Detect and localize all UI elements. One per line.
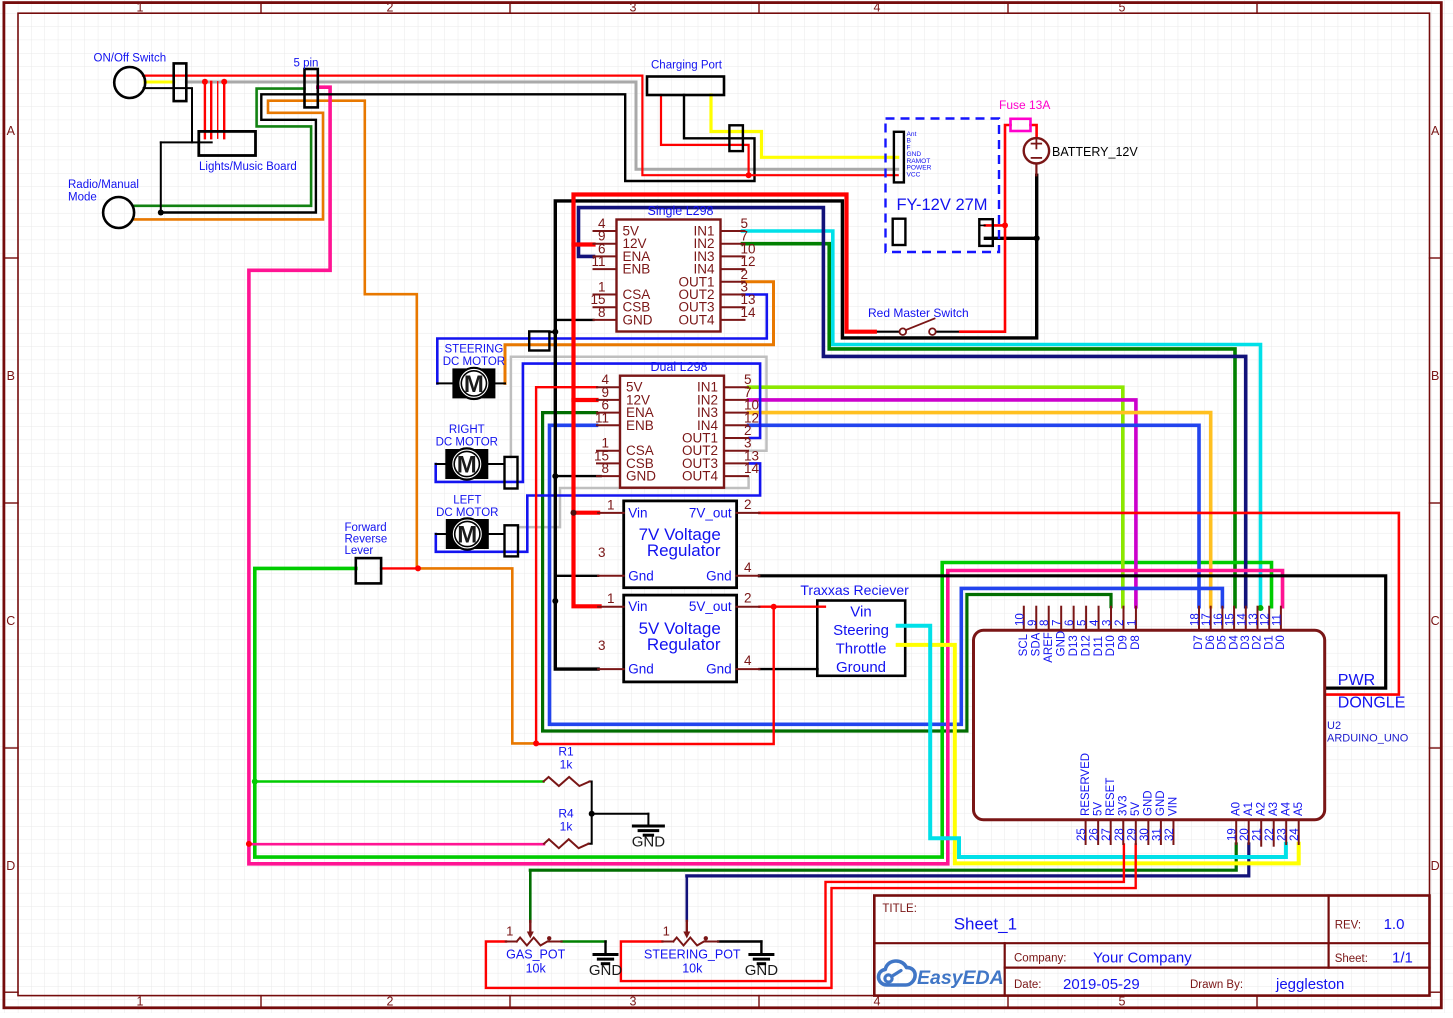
svg-text:11: 11 <box>591 254 605 269</box>
svg-text:Gnd: Gnd <box>706 662 732 677</box>
svg-text:9: 9 <box>1027 620 1039 626</box>
svg-text:22: 22 <box>1264 828 1276 841</box>
svg-text:LEFT: LEFT <box>453 495 481 507</box>
svg-text:D10: D10 <box>1105 635 1117 656</box>
svg-text:REV:: REV: <box>1335 920 1361 932</box>
svg-text:15: 15 <box>1225 613 1237 626</box>
svg-text:5V: 5V <box>1130 802 1142 816</box>
svg-text:21: 21 <box>1252 828 1264 841</box>
svg-text:11: 11 <box>595 410 609 425</box>
svg-text:31: 31 <box>1151 828 1163 841</box>
svg-text:Date:: Date: <box>1014 979 1042 991</box>
svg-text:28: 28 <box>1114 828 1126 841</box>
svg-text:Traxxas Reciever: Traxxas Reciever <box>800 582 909 598</box>
svg-text:U2: U2 <box>1327 720 1341 732</box>
svg-text:Gnd: Gnd <box>706 568 732 583</box>
svg-text:20: 20 <box>1239 828 1251 841</box>
svg-text:3: 3 <box>630 994 637 1008</box>
svg-text:Sheet_1: Sheet_1 <box>954 915 1017 934</box>
svg-text:Forward: Forward <box>345 522 387 534</box>
svg-text:Single L298: Single L298 <box>647 204 713 218</box>
svg-text:3: 3 <box>1102 620 1114 626</box>
svg-text:5: 5 <box>1119 0 1126 14</box>
svg-text:2019-05-29: 2019-05-29 <box>1063 976 1140 993</box>
svg-text:D: D <box>1431 859 1440 873</box>
svg-text:B: B <box>7 369 15 383</box>
svg-text:Mode: Mode <box>68 192 97 204</box>
svg-text:GND: GND <box>589 962 623 979</box>
svg-text:14: 14 <box>741 305 757 320</box>
svg-text:4: 4 <box>744 560 752 575</box>
svg-text:EasyEDA: EasyEDA <box>917 967 1004 989</box>
svg-text:D8: D8 <box>1130 635 1142 650</box>
svg-text:VIN: VIN <box>1168 797 1180 816</box>
svg-text:4: 4 <box>874 0 881 14</box>
svg-text:Dual L298: Dual L298 <box>651 360 708 374</box>
svg-text:Your Company: Your Company <box>1093 950 1192 967</box>
svg-text:B: B <box>1431 369 1439 383</box>
svg-text:10k: 10k <box>682 962 703 976</box>
svg-text:TITLE:: TITLE: <box>882 903 917 915</box>
svg-text:SCL: SCL <box>1018 633 1030 656</box>
svg-text:Company:: Company: <box>1014 953 1066 965</box>
svg-text:A: A <box>1431 124 1440 138</box>
svg-text:2: 2 <box>1114 620 1126 626</box>
svg-text:M: M <box>457 452 477 479</box>
svg-text:1: 1 <box>607 497 615 512</box>
svg-text:R1: R1 <box>558 745 574 759</box>
svg-text:D11: D11 <box>1093 636 1105 656</box>
svg-text:18: 18 <box>1190 613 1202 626</box>
svg-text:GND: GND <box>1155 790 1167 816</box>
svg-text:D12: D12 <box>1080 635 1092 656</box>
svg-text:RESERVED: RESERVED <box>1080 753 1092 816</box>
svg-text:D4: D4 <box>1228 635 1240 650</box>
svg-text:Throttle: Throttle <box>836 641 887 658</box>
svg-text:Reverse: Reverse <box>345 534 388 546</box>
svg-text:3: 3 <box>598 638 606 653</box>
svg-text:jeggleston: jeggleston <box>1275 976 1344 993</box>
svg-text:2: 2 <box>744 591 752 606</box>
svg-text:DC MOTOR: DC MOTOR <box>436 507 498 519</box>
svg-text:8: 8 <box>598 305 606 320</box>
svg-text:A: A <box>7 124 16 138</box>
svg-text:1k: 1k <box>560 820 574 834</box>
svg-text:A5: A5 <box>1293 802 1305 816</box>
svg-text:OUT4: OUT4 <box>682 469 718 484</box>
svg-text:RIGHT: RIGHT <box>449 424 485 436</box>
svg-text:1: 1 <box>506 924 513 939</box>
svg-text:OUT4: OUT4 <box>678 312 714 327</box>
svg-text:1: 1 <box>663 924 670 939</box>
svg-text:C: C <box>1431 614 1440 628</box>
svg-text:FY-12V 27M: FY-12V 27M <box>896 196 987 214</box>
svg-text:7: 7 <box>1052 620 1064 626</box>
svg-text:A2: A2 <box>1255 802 1267 816</box>
svg-text:1: 1 <box>1126 620 1138 626</box>
svg-text:1: 1 <box>137 0 144 14</box>
svg-text:1: 1 <box>607 591 615 606</box>
svg-text:3: 3 <box>598 545 606 560</box>
svg-text:Sheet:: Sheet: <box>1335 953 1368 965</box>
svg-text:GND: GND <box>626 469 656 484</box>
svg-text:25: 25 <box>1076 828 1088 841</box>
svg-text:26: 26 <box>1089 828 1101 841</box>
svg-text:1: 1 <box>137 994 144 1008</box>
svg-text:M: M <box>457 522 477 549</box>
svg-text:Charging Port: Charging Port <box>651 60 723 72</box>
svg-text:23: 23 <box>1277 828 1289 841</box>
svg-text:Vin: Vin <box>628 505 647 520</box>
svg-text:11: 11 <box>1271 614 1283 626</box>
svg-text:VCC: VCC <box>907 171 921 178</box>
svg-text:1.0: 1.0 <box>1384 916 1405 933</box>
svg-text:Lever: Lever <box>345 545 374 557</box>
svg-text:Lights/Music Board: Lights/Music Board <box>199 161 297 173</box>
svg-text:3: 3 <box>630 0 637 14</box>
svg-text:D3: D3 <box>1240 635 1252 650</box>
svg-text:Regulator: Regulator <box>647 541 721 560</box>
svg-text:D6: D6 <box>1205 635 1217 650</box>
svg-text:D7: D7 <box>1193 635 1205 650</box>
svg-text:5V_out: 5V_out <box>689 599 732 614</box>
svg-text:A3: A3 <box>1268 802 1280 816</box>
svg-text:4: 4 <box>1089 619 1101 626</box>
svg-text:30: 30 <box>1139 828 1151 841</box>
svg-text:D9: D9 <box>1118 635 1130 650</box>
svg-text:Fuse 13A: Fuse 13A <box>999 98 1050 112</box>
svg-text:16: 16 <box>1213 613 1225 626</box>
svg-text:D13: D13 <box>1068 635 1080 656</box>
svg-text:32: 32 <box>1164 828 1176 841</box>
svg-text:Ground: Ground <box>836 659 886 676</box>
svg-text:ARDUINO_UNO: ARDUINO_UNO <box>1327 733 1409 745</box>
svg-text:Vin: Vin <box>628 599 647 614</box>
svg-text:24: 24 <box>1289 828 1301 841</box>
svg-text:Gnd: Gnd <box>628 568 654 583</box>
svg-text:Red Master Switch: Red Master Switch <box>868 306 969 320</box>
svg-text:12: 12 <box>1260 613 1272 626</box>
svg-text:5V: 5V <box>1092 802 1104 816</box>
svg-text:D: D <box>6 859 15 873</box>
svg-text:1/1: 1/1 <box>1392 950 1413 967</box>
svg-text:Gnd: Gnd <box>628 662 654 677</box>
svg-text:D2: D2 <box>1252 635 1264 650</box>
svg-text:M: M <box>464 371 484 398</box>
svg-text:8: 8 <box>1039 620 1051 626</box>
svg-text:PWR: PWR <box>1338 672 1375 689</box>
svg-text:14: 14 <box>744 461 760 476</box>
svg-text:8: 8 <box>601 461 609 476</box>
svg-text:D0: D0 <box>1275 635 1287 650</box>
svg-text:1k: 1k <box>560 758 574 772</box>
svg-text:5 pin: 5 pin <box>294 58 319 70</box>
svg-text:DONGLE: DONGLE <box>1338 695 1406 712</box>
svg-text:Regulator: Regulator <box>647 635 721 654</box>
svg-text:A4: A4 <box>1280 801 1292 816</box>
svg-text:STEERING_POT: STEERING_POT <box>644 948 741 962</box>
svg-text:7V_out: 7V_out <box>689 505 732 520</box>
svg-text:R4: R4 <box>558 807 574 821</box>
svg-text:C: C <box>6 614 15 628</box>
svg-text:17: 17 <box>1201 613 1213 626</box>
svg-text:GAS_POT: GAS_POT <box>506 948 565 962</box>
svg-text:D5: D5 <box>1217 635 1229 650</box>
svg-text:Radio/Manual: Radio/Manual <box>68 179 139 191</box>
svg-text:BATTERY_12V: BATTERY_12V <box>1052 145 1138 159</box>
svg-text:ON/Off Switch: ON/Off Switch <box>94 53 167 65</box>
svg-text:Vin: Vin <box>850 604 871 621</box>
svg-text:Drawn By:: Drawn By: <box>1190 979 1243 991</box>
svg-text:ENB: ENB <box>626 418 654 433</box>
svg-text:D1: D1 <box>1263 635 1275 650</box>
svg-text:ENB: ENB <box>623 262 651 277</box>
svg-text:3V3: 3V3 <box>1117 796 1129 816</box>
svg-text:2: 2 <box>744 497 752 512</box>
svg-text:10: 10 <box>1014 613 1026 626</box>
svg-text:STEERING: STEERING <box>445 344 504 356</box>
svg-text:29: 29 <box>1126 828 1138 841</box>
svg-text:6: 6 <box>1064 620 1076 626</box>
svg-text:SDA: SDA <box>1030 632 1042 656</box>
svg-text:A1: A1 <box>1243 802 1255 816</box>
svg-text:A0: A0 <box>1230 802 1242 816</box>
svg-text:19: 19 <box>1227 828 1239 841</box>
svg-text:27: 27 <box>1101 828 1113 841</box>
svg-text:2: 2 <box>387 0 394 14</box>
svg-text:GND: GND <box>745 962 779 979</box>
svg-text:4: 4 <box>744 653 752 668</box>
svg-text:GND: GND <box>623 312 653 327</box>
svg-text:GND: GND <box>632 834 666 851</box>
svg-text:14: 14 <box>1236 613 1248 626</box>
svg-text:GND: GND <box>1055 631 1067 657</box>
svg-text:2: 2 <box>387 994 394 1008</box>
svg-text:13: 13 <box>1248 613 1260 626</box>
svg-text:RESET: RESET <box>1105 778 1117 816</box>
svg-text:DC MOTOR: DC MOTOR <box>443 356 505 368</box>
svg-text:DC MOTOR: DC MOTOR <box>436 437 498 449</box>
svg-text:GND: GND <box>1143 790 1155 816</box>
svg-text:5: 5 <box>1077 620 1089 626</box>
svg-text:10k: 10k <box>526 962 547 976</box>
svg-text:Steering: Steering <box>833 622 889 639</box>
svg-text:AREF: AREF <box>1043 632 1055 663</box>
